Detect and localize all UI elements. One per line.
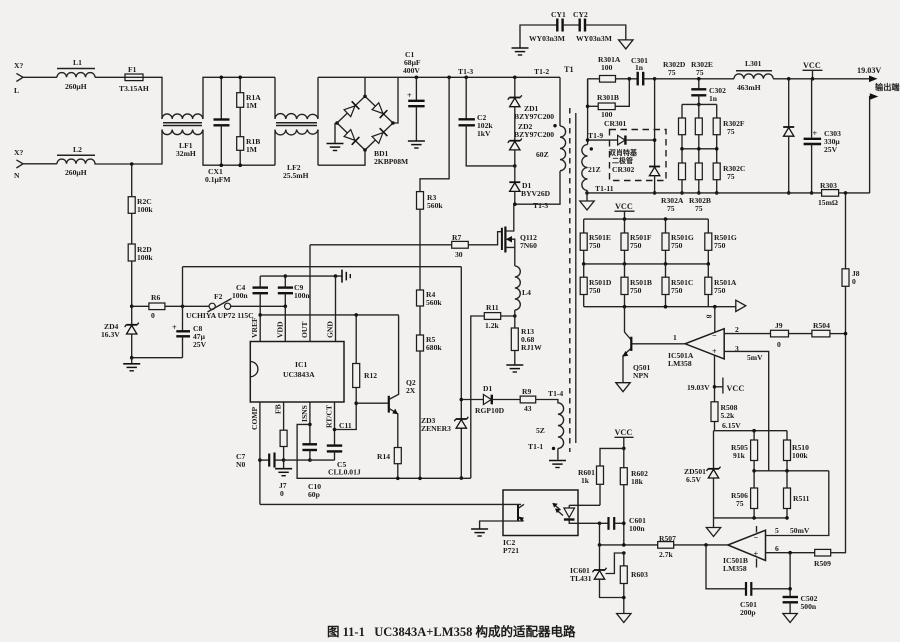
zener ZD2: [508, 107, 554, 150]
RT/CT to R12 bottom: [335, 403, 357, 429]
resistor R601: [578, 448, 624, 505]
svg-text:X?: X?: [14, 148, 23, 157]
svg-text:75: 75: [736, 499, 744, 508]
svg-text:R6: R6: [151, 293, 160, 302]
resistor R301A: [588, 55, 638, 82]
capacitor C2: [459, 76, 515, 166]
resistor R302A: [661, 163, 686, 213]
transistor Q2: [356, 315, 416, 447]
resistor R501C: [662, 264, 693, 307]
svg-text:X?: X?: [14, 61, 23, 70]
R501 bank mid rail: [584, 263, 709, 265]
svg-text:16.3V: 16.3V: [101, 330, 120, 339]
resistor R303: [818, 181, 870, 207]
R501 bank bottom rail with arrow: [584, 300, 746, 311]
resistor R510: [784, 431, 810, 488]
ISNS pin line: [308, 402, 312, 444]
svg-text:+: +: [172, 323, 177, 332]
IC1 UC3843A: [250, 317, 344, 430]
svg-text:VCC: VCC: [615, 202, 633, 211]
svg-text:P721: P721: [503, 546, 519, 555]
resistor R2D: [128, 213, 153, 308]
svg-text:GND: GND: [326, 321, 335, 338]
svg-text:CY2: CY2: [573, 10, 588, 19]
wire input L to L1: [23, 76, 57, 78]
svg-text:IC1: IC1: [295, 360, 307, 369]
svg-text:R303: R303: [820, 181, 837, 190]
svg-text:LM358: LM358: [723, 564, 747, 573]
svg-text:双肖特基: 双肖特基: [609, 148, 638, 157]
snubber grid top rail: [682, 103, 717, 105]
svg-text:T1-1: T1-1: [528, 442, 543, 451]
svg-text:15mΩ: 15mΩ: [818, 198, 838, 207]
resistor R505: [731, 431, 758, 488]
capacitor C5: [327, 446, 361, 477]
svg-text:6.15V: 6.15V: [722, 421, 741, 430]
svg-text:T1-11: T1-11: [595, 184, 614, 193]
svg-text:L: L: [14, 86, 19, 95]
wire VCC node up to startup rail: [182, 267, 184, 307]
OUT pin line: [309, 245, 311, 342]
capacitor C502: [783, 594, 818, 623]
resistor R501G second: [705, 219, 737, 264]
svg-text:2.7k: 2.7k: [659, 550, 673, 559]
svg-text:R504: R504: [813, 321, 830, 330]
transformer T1 core: [570, 108, 576, 452]
op-amp B output line: [674, 544, 728, 546]
node L2/R2C junction: [130, 162, 134, 166]
VCC startup rail: [183, 266, 462, 268]
svg-text:100k: 100k: [792, 451, 808, 460]
svg-text:二极管: 二极管: [612, 156, 633, 165]
capacitor C4: [232, 283, 268, 300]
svg-text:91k: 91k: [733, 451, 746, 460]
svg-text:750: 750: [630, 286, 642, 295]
svg-text:1n: 1n: [709, 94, 718, 103]
svg-text:75: 75: [727, 172, 735, 181]
svg-text:560k: 560k: [426, 298, 442, 307]
VREF pin line with C4: [259, 276, 261, 341]
svg-text:19.03V: 19.03V: [857, 66, 881, 75]
input terminal X1 L: [14, 61, 23, 95]
svg-text:R9: R9: [522, 387, 531, 396]
capacitor C301: [631, 56, 655, 85]
wire LF1 bottom right to lower rail: [203, 130, 275, 166]
output bottom rail: [587, 192, 822, 194]
svg-text:5Z: 5Z: [536, 426, 545, 435]
resistor R602: [620, 448, 648, 545]
svg-text:CR301: CR301: [604, 119, 627, 128]
svg-text:R511: R511: [793, 494, 810, 503]
svg-text:680k: 680k: [426, 343, 442, 352]
resistor R4: [417, 290, 443, 307]
svg-text:R603: R603: [631, 570, 648, 579]
VCC feed to R501 bank: [615, 202, 635, 219]
svg-text:0: 0: [852, 277, 856, 286]
svg-text:CY1: CY1: [551, 10, 566, 19]
COMP feedback line y460: [284, 459, 335, 461]
svg-text:75: 75: [695, 204, 703, 213]
output terminal label and sense arrow: [870, 82, 900, 193]
svg-text:RT/CT: RT/CT: [325, 405, 334, 428]
zener ZD1: [508, 77, 554, 121]
transformer T1 secondary winding 21Z: [580, 79, 614, 210]
wire bridge top vertex to rail: [364, 77, 366, 96]
capacitor CY2: [563, 10, 633, 49]
svg-text:750: 750: [671, 286, 683, 295]
resistor R509: [814, 549, 846, 568]
svg-text:6.5V: 6.5V: [686, 475, 701, 484]
svg-text:50mV: 50mV: [790, 526, 810, 535]
svg-text:T1-3: T1-3: [458, 67, 473, 76]
diode D1 RGP10D: [461, 384, 520, 415]
svg-text:C11: C11: [339, 421, 352, 430]
svg-text:75: 75: [696, 68, 704, 77]
resistor R7: [452, 233, 469, 259]
svg-text:60p: 60p: [308, 490, 320, 499]
svg-text:100: 100: [601, 63, 613, 72]
svg-text:25V: 25V: [193, 340, 207, 349]
svg-text:100n: 100n: [294, 291, 310, 300]
wire top rail LF2 to T1-2: [318, 76, 560, 78]
svg-text:100k: 100k: [137, 205, 153, 214]
svg-text:500n: 500n: [801, 602, 817, 611]
optocoupler IC2: [503, 490, 578, 555]
svg-text:R14: R14: [377, 452, 390, 461]
common mode choke LF1: [162, 114, 203, 158]
svg-text:0: 0: [777, 340, 781, 349]
svg-text:LM358: LM358: [668, 359, 692, 368]
svg-text:2KBP08M: 2KBP08M: [374, 157, 408, 166]
resistor R302E: [695, 104, 702, 134]
ground at bridge minus: [327, 123, 344, 151]
inductor L4: [513, 266, 531, 318]
svg-text:ZENER3: ZENER3: [421, 424, 451, 433]
common mode choke LF2: [275, 77, 318, 180]
svg-text:1: 1: [673, 333, 677, 342]
resistor R1A: [237, 76, 262, 111]
resistor R14: [377, 448, 401, 481]
node C2 to clamp: [513, 164, 517, 168]
pin3 line down to divider: [724, 351, 769, 470]
resistor R501B: [621, 264, 652, 307]
output line to arrow 19.03V: [773, 66, 881, 82]
resistor R302B: [689, 163, 711, 213]
svg-text:UC3843A: UC3843A: [283, 370, 315, 379]
opto phototransistor: [471, 504, 524, 536]
output top rail: [655, 78, 734, 80]
wire R5 to sense rail: [419, 351, 421, 478]
capacitor C601: [598, 516, 646, 533]
wire LF1 top right up to top rail: [203, 77, 275, 119]
rectifier vertical line: [654, 79, 656, 166]
wire F1 to LF1: [143, 77, 162, 119]
svg-text:100: 100: [601, 110, 613, 119]
wire input N to L2: [23, 163, 57, 165]
divider bottom rail: [714, 517, 788, 519]
wire R3 down to R4: [419, 209, 421, 290]
diode across output: [783, 77, 794, 195]
svg-text:RJ1W: RJ1W: [521, 343, 542, 352]
feedback from pin6 node: [789, 553, 791, 597]
diode CR301: [588, 135, 655, 145]
resistor R13: [506, 316, 542, 372]
rectifier output node: [653, 77, 657, 81]
inductor L301: [734, 59, 773, 92]
svg-text:TL431: TL431: [570, 574, 592, 583]
wire OUT rail to R7: [310, 244, 452, 246]
svg-text:0: 0: [280, 489, 284, 498]
bypass ground rail above IC1: [260, 270, 350, 283]
shunt regulator IC601 TL431: [570, 545, 626, 598]
wire R4 to R5: [419, 306, 421, 335]
RT/CT pin line: [333, 402, 352, 445]
resistor R6: [132, 293, 210, 320]
svg-text:260μH: 260μH: [65, 82, 87, 91]
svg-text:+: +: [813, 129, 818, 138]
svg-text:+: +: [407, 91, 412, 100]
opto cathode to R507 node: [599, 523, 601, 545]
pin5 line: [766, 471, 829, 536]
svg-text:5.2k: 5.2k: [721, 411, 735, 420]
svg-text:VCC: VCC: [615, 428, 633, 437]
svg-text:+: +: [712, 347, 717, 356]
svg-text:T3.15AH: T3.15AH: [119, 84, 149, 93]
svg-text:T1: T1: [564, 65, 574, 74]
fuse F1: [119, 65, 149, 93]
inductor L2: [57, 145, 95, 177]
svg-text:7N60: 7N60: [520, 241, 537, 250]
resistor R507: [600, 534, 677, 559]
node R5 rail: [418, 477, 422, 481]
VREF rail to R12 and Q2: [260, 314, 399, 316]
VCC tap on output: [803, 61, 823, 81]
svg-text:R12: R12: [364, 371, 377, 380]
svg-text:VCC: VCC: [727, 384, 745, 393]
COMP pin line: [259, 402, 261, 504]
svg-text:750: 750: [589, 286, 601, 295]
svg-text:200p: 200p: [740, 608, 756, 617]
svg-text:WY03n3M: WY03n3M: [576, 34, 612, 43]
svg-text:L2: L2: [73, 145, 82, 154]
R501 bank top rail: [584, 218, 709, 220]
svg-text:F1: F1: [128, 65, 137, 74]
svg-text:ISNS: ISNS: [300, 405, 309, 422]
snubber grid mid rail: [680, 135, 718, 163]
svg-text:19.03V: 19.03V: [687, 383, 710, 392]
svg-text:750: 750: [714, 241, 726, 250]
svg-text:1M: 1M: [246, 145, 257, 154]
zener ZD3: [421, 416, 468, 433]
svg-text:R509: R509: [814, 559, 831, 568]
resistor R302F: [713, 104, 745, 136]
svg-text:1kV: 1kV: [477, 129, 491, 138]
svg-text:100n: 100n: [629, 524, 645, 533]
svg-text:T1-2: T1-2: [534, 67, 549, 76]
resistor R301B: [586, 79, 630, 119]
node aux diode junction: [460, 398, 464, 402]
resistor R501A: [705, 264, 737, 307]
svg-text:21Z: 21Z: [588, 165, 601, 174]
svg-text:F2: F2: [214, 292, 223, 301]
svg-text:25V: 25V: [824, 145, 838, 154]
svg-text:5mV: 5mV: [747, 353, 763, 362]
capacitor C7: [236, 452, 284, 469]
svg-text:VDD: VDD: [275, 321, 284, 338]
svg-text:2: 2: [735, 325, 739, 334]
svg-text:+: +: [754, 550, 759, 559]
svg-text:60Z: 60Z: [536, 150, 549, 159]
bridge rectifier BD1: [335, 95, 408, 167]
clamp chain node: [513, 76, 517, 80]
resistor R511: [784, 488, 810, 518]
svg-text:1M: 1M: [246, 101, 257, 110]
svg-text:图 11-1 UC3843A+LM358 构成的适配器电: 图 11-1 UC3843A+LM358 构成的适配器电路: [327, 624, 576, 639]
capacitor C303: [804, 79, 841, 195]
resistor R501E: [580, 219, 611, 264]
svg-text:463mH: 463mH: [737, 83, 761, 92]
resistor J9: [771, 321, 812, 349]
svg-text:75: 75: [667, 204, 675, 213]
resistor R12: [353, 313, 378, 405]
capacitor C1: [403, 50, 425, 148]
capacitor C10: [302, 444, 321, 499]
svg-text:−: −: [754, 533, 759, 542]
svg-text:1k: 1k: [581, 476, 590, 485]
node ZD3 to sense rail: [460, 476, 464, 480]
svg-text:18k: 18k: [631, 477, 644, 486]
capacitor C501 feedback: [706, 545, 790, 617]
svg-text:750: 750: [671, 241, 683, 250]
input terminal X2 N: [14, 148, 23, 180]
svg-text:L4: L4: [522, 288, 531, 297]
svg-text:WY03n3M: WY03n3M: [529, 34, 565, 43]
svg-text:BZY97C200: BZY97C200: [514, 112, 554, 121]
svg-text:OUT: OUT: [300, 322, 309, 338]
zener ZD501: [684, 431, 721, 518]
svg-text:T1-9: T1-9: [588, 131, 603, 140]
op-amp IC501A: [668, 315, 739, 369]
resistor R3: [417, 192, 444, 210]
op-amp IC501B: [723, 526, 766, 573]
resistor R2C: [128, 164, 153, 214]
node J8 tap: [844, 191, 848, 195]
resistor R504: [812, 321, 846, 337]
svg-text:1.2k: 1.2k: [485, 321, 499, 330]
svg-text:100k: 100k: [137, 253, 153, 262]
ground J7 under FB: [275, 460, 292, 498]
svg-text:2X: 2X: [406, 386, 416, 395]
svg-text:32mH: 32mH: [176, 149, 196, 158]
svg-text:CR302: CR302: [612, 165, 635, 174]
aux rectifier line x461: [460, 267, 462, 478]
svg-text:5: 5: [775, 526, 779, 535]
GND pin line: [335, 276, 337, 341]
wire bridge bottom vertex to lower rail: [318, 150, 365, 165]
MOSFET Q112: [452, 204, 537, 266]
pin6 line to R509: [766, 544, 815, 555]
svg-text:R7: R7: [452, 233, 461, 242]
svg-text:VCC: VCC: [803, 61, 821, 70]
svg-text:R301B: R301B: [597, 93, 619, 102]
inductor L1: [57, 58, 95, 91]
svg-text:N0: N0: [236, 460, 245, 469]
svg-text:75: 75: [727, 127, 735, 136]
svg-text:25.5mH: 25.5mH: [283, 171, 309, 180]
transformer T1 aux winding 5Z: [528, 400, 566, 468]
svg-text:BYV26D: BYV26D: [521, 189, 551, 198]
svg-text:输出端: 输出端: [875, 82, 900, 92]
op-amp A output to Q501 base: [632, 343, 685, 345]
resistor R603: [617, 553, 648, 623]
wire L1 to F1: [95, 76, 125, 78]
resistor R501D: [580, 264, 612, 307]
transistor Q501: [616, 307, 651, 392]
ISNS loop to sense rail: [297, 424, 471, 478]
svg-text:30: 30: [455, 250, 463, 259]
svg-text:L301: L301: [745, 59, 762, 68]
svg-text:T1-4: T1-4: [548, 389, 563, 398]
ground under divider: [706, 518, 720, 537]
dual schottky dashed box CR301: [604, 119, 666, 181]
svg-text:260μH: 260μH: [65, 168, 87, 177]
FB pin resistor: [280, 402, 287, 462]
resistor R9: [520, 387, 536, 413]
resistor R501F: [621, 219, 652, 264]
VDD pin line: [284, 306, 286, 341]
COMP to optocoupler line: [260, 503, 521, 505]
svg-text:75: 75: [668, 68, 676, 77]
wire L2 to LF1 bottom, with junction to R2C: [95, 130, 162, 165]
svg-text:400V: 400V: [403, 66, 420, 75]
capacitor CY1: [512, 10, 566, 55]
transformer T1 primary winding 60Z: [513, 77, 566, 206]
svg-text:COMP: COMP: [250, 406, 259, 430]
svg-text:T1-3: T1-3: [533, 201, 548, 210]
svg-text:CLL0.01J: CLL0.01J: [328, 468, 361, 477]
node T1-3 branch: [447, 76, 451, 80]
divider mid rail: [754, 470, 829, 472]
VCC above R602: [615, 428, 634, 450]
wire to R3: [420, 77, 449, 191]
capacitor C9: [278, 274, 311, 308]
resistor R302D: [679, 104, 686, 134]
svg-text:6: 6: [775, 544, 779, 553]
resistor J8: [842, 193, 860, 553]
svg-text:750: 750: [630, 241, 642, 250]
svg-text:43: 43: [524, 404, 532, 413]
svg-text:BZY97C200: BZY97C200: [514, 130, 554, 139]
svg-text:D1: D1: [483, 384, 492, 393]
zener ZD4: [101, 306, 140, 371]
svg-text:0: 0: [151, 311, 155, 320]
capacitor C302: [691, 77, 726, 106]
wire bridge right vertex to top rail: [393, 77, 398, 123]
thermal fuse F2: [186, 292, 285, 320]
capacitor C8: [132, 306, 207, 357]
svg-text:8: 8: [705, 315, 714, 319]
svg-text:L1: L1: [73, 58, 82, 67]
op-amp A supply line: [687, 307, 744, 402]
resistor R5: [417, 335, 443, 352]
svg-text:750: 750: [714, 286, 726, 295]
resistor R1B: [237, 107, 261, 167]
capacitor CX1: [205, 76, 231, 185]
svg-text:560k: 560k: [427, 201, 443, 210]
diode CR302: [649, 167, 660, 195]
pin2 line to J9: [724, 333, 770, 335]
resistor R501G: [662, 219, 694, 264]
